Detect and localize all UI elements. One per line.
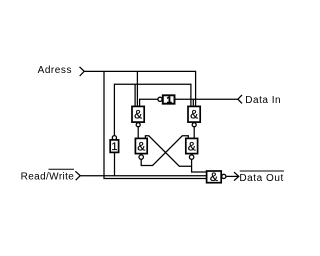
wire Adress drop at x104 to read-gate input bus — [104, 71, 207, 178]
node Data Out arrowhead — [234, 172, 239, 181]
svg-text:&: & — [137, 140, 145, 154]
wire Adress drop to left write-gate pin 2 — [136, 71, 138, 106]
wire U6 output down to read-gate top input — [192, 159, 207, 172]
wire read-gate bubble to Data Out arrow — [226, 175, 239, 177]
label overline Write — [49, 168, 75, 170]
inverter U4 data-in inverter box — [163, 95, 175, 103]
svg-text:&: & — [134, 108, 142, 122]
bubble U2 output — [192, 123, 196, 127]
svg-text:1: 1 — [167, 95, 172, 105]
wire left write-gate output to latch gate U5 — [137, 127, 139, 139]
and-gate U2 right write gate box — [188, 106, 200, 122]
label overline Data Out — [240, 170, 284, 172]
bubble U5 output — [139, 155, 143, 159]
wire write-enable drop to left write-gate pin 1 — [134, 84, 136, 106]
bubble U7 output — [222, 174, 226, 178]
wire cross-couple U5 output down, right, diagonal up to U6 top input — [141, 136, 188, 166]
wire Data In drop to right write-gate pin 2 — [192, 99, 194, 106]
svg-text:1: 1 — [111, 141, 117, 153]
svg-text:Data Out: Data Out — [239, 173, 283, 184]
and-gate U5 left latch gate box — [135, 138, 147, 153]
bubble U3 output — [112, 136, 116, 140]
svg-text:Data In: Data In — [245, 95, 281, 106]
bubble U1 output — [136, 123, 140, 127]
svg-text:Read/Write: Read/Write — [21, 171, 75, 182]
wire Read/Write branch up into inverter U3 — [114, 152, 116, 175]
node Read/Write input chevron — [75, 171, 80, 180]
svg-text:&: & — [188, 140, 196, 154]
svg-text:&: & — [190, 108, 198, 122]
node Adress input chevron — [80, 67, 85, 76]
wire inverted data from U4 bubble to left write-gate pin 3 — [140, 99, 158, 106]
svg-text:&: & — [210, 170, 218, 184]
and-gate U1 left write gate box — [132, 106, 144, 122]
bubble U4 output — [158, 97, 162, 101]
wire right write-gate output to latch gate U6 — [193, 127, 195, 139]
wire write-enable rail from U3 bubble up and right into right write-gate pin 1 — [114, 84, 190, 135]
wire U6 output branch diagonal up-left to U5 top input — [145, 136, 191, 166]
node Data In chevron — [238, 95, 242, 104]
bubble U6 output — [189, 155, 193, 159]
inverter U3 read/write inverter box — [110, 140, 118, 153]
and-gate U6 right latch gate box — [186, 138, 198, 153]
wire Read/Write horizontal rail to read-gate — [80, 175, 206, 177]
and-gate U7 read/output gate box — [207, 171, 222, 183]
wire Adress horizontal rail then down into right write-gate pin 3 — [84, 71, 195, 106]
wire Data In rail to inverter U4 input — [175, 98, 238, 100]
svg-text:Adress: Adress — [38, 65, 72, 76]
